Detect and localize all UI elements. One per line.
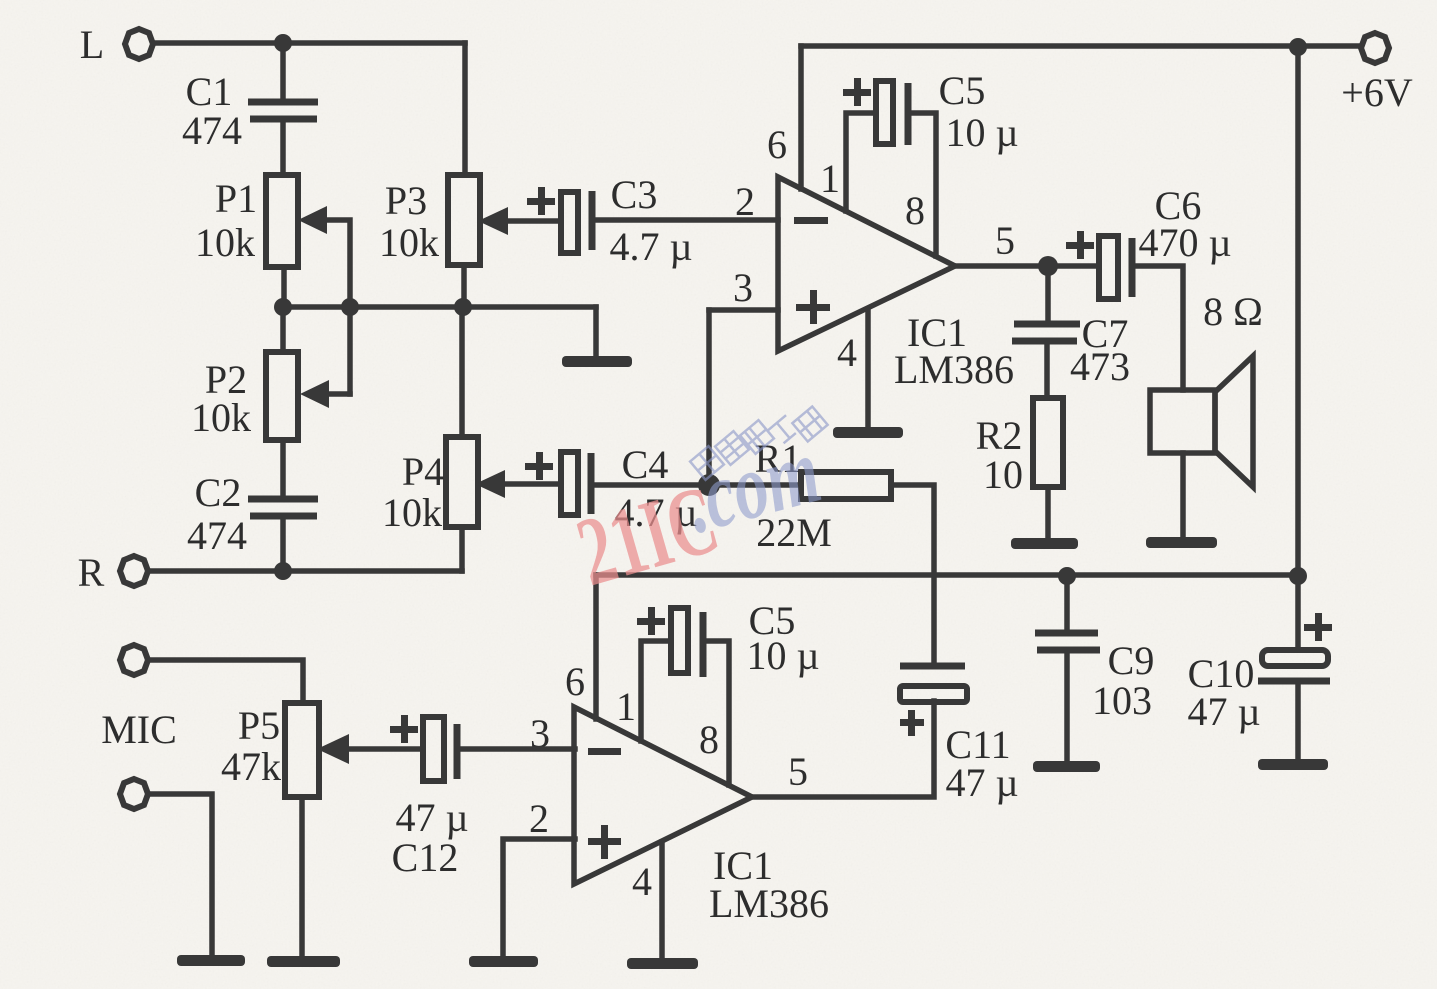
svg-text:10: 10 xyxy=(983,452,1023,497)
wire C1 to P1 xyxy=(280,122,286,175)
wire P3 bottom to bus xyxy=(461,265,467,307)
plus sign U2 xyxy=(588,825,621,859)
wire R1 to C11 column xyxy=(891,485,934,666)
wiper arrow P3 xyxy=(478,207,508,235)
wire C12 to pin3 lower xyxy=(457,746,575,752)
svg-text:47 µ: 47 µ xyxy=(395,795,468,840)
svg-text:470 µ: 470 µ xyxy=(1138,220,1231,265)
ground C9 xyxy=(1033,761,1100,772)
wire P2 bottom xyxy=(280,440,286,496)
svg-text:C12: C12 xyxy=(392,835,459,880)
wire C7 to R2 xyxy=(1044,344,1050,398)
svg-text:47 µ: 47 µ xyxy=(945,760,1018,805)
wire C2 to R line xyxy=(280,519,286,571)
watermark .com blue xyxy=(674,418,830,553)
svg-text:C2: C2 xyxy=(195,470,242,515)
plus sign U1 xyxy=(796,290,830,324)
wiper arrow P4 xyxy=(475,470,505,498)
junction wiper bus xyxy=(341,298,359,316)
potentiometer P4 xyxy=(446,437,478,527)
capacitor C11 electrolytic xyxy=(900,663,965,670)
wire pin6 up to rail xyxy=(798,46,804,189)
svg-text:P4: P4 xyxy=(402,449,444,494)
terminal +6V xyxy=(1361,33,1389,63)
junction C2 R-line xyxy=(274,562,292,580)
speaker SP xyxy=(1150,390,1215,453)
terminal R xyxy=(120,556,148,586)
ground pin4 U2 xyxy=(627,958,698,969)
plus sign C5 lower xyxy=(637,607,665,635)
svg-text:P3: P3 xyxy=(385,178,427,223)
svg-text:L: L xyxy=(80,22,104,67)
wire MIC bottom to ground xyxy=(148,794,212,955)
wire P1 wiper xyxy=(325,220,350,394)
potentiometer P2 xyxy=(266,352,298,440)
svg-text:10k: 10k xyxy=(191,395,251,440)
ground speaker xyxy=(1146,537,1217,548)
op-amp U1 LM386 xyxy=(778,177,955,351)
plus sign C6 xyxy=(1066,231,1094,259)
capacitor C5 lower electrolytic xyxy=(671,608,688,673)
wire node up to pin3 xyxy=(706,310,712,485)
wire pin4 to ground xyxy=(865,310,871,427)
wire rail to pin6 lower xyxy=(593,575,599,719)
svg-text:474: 474 xyxy=(187,513,247,558)
wire P5 wiper to C12 xyxy=(347,746,423,752)
potentiometer P1 xyxy=(266,175,298,267)
svg-text:6: 6 xyxy=(767,122,787,167)
capacitor C7 xyxy=(1012,324,1080,341)
svg-text:6: 6 xyxy=(565,659,585,704)
wire P5 bottom to ground xyxy=(299,797,305,956)
svg-text:P5: P5 xyxy=(238,703,280,748)
svg-text:10 µ: 10 µ xyxy=(945,110,1018,155)
wire pin1 lower xyxy=(641,641,671,741)
wire C10 to ground xyxy=(1295,681,1301,759)
minus sign U2 xyxy=(588,748,621,755)
svg-text:5: 5 xyxy=(788,749,808,794)
wire R2 to ground xyxy=(1045,487,1051,538)
ground pin4 U1 xyxy=(833,427,903,438)
wire C4 to node xyxy=(591,482,709,488)
plus sign C10 xyxy=(1304,613,1332,641)
junction P1 bus xyxy=(274,298,292,316)
svg-text:473: 473 xyxy=(1070,344,1130,389)
capacitor C2 xyxy=(248,499,318,516)
node at C1 top xyxy=(274,34,292,52)
watermark 21IC pink xyxy=(566,465,729,607)
wire C7 top lead xyxy=(1045,266,1051,321)
svg-text:474: 474 xyxy=(182,108,242,153)
watermark chinese chars xyxy=(690,406,828,479)
ground MIC xyxy=(177,955,245,966)
wire output pin5 lower xyxy=(751,701,934,797)
wire P3 wiper to C3 xyxy=(506,218,561,224)
svg-text:2: 2 xyxy=(529,796,549,841)
wire node to R1 xyxy=(709,482,801,488)
wire bus to P2 top xyxy=(280,307,286,352)
svg-text:1: 1 xyxy=(820,156,840,201)
ground P5 xyxy=(267,956,340,967)
ground pin2 U2 xyxy=(469,956,538,967)
terminal MIC bottom xyxy=(120,779,148,809)
wire pin1 xyxy=(846,113,876,211)
potentiometer P3 xyxy=(448,175,480,265)
junction C10 rail xyxy=(1289,567,1307,585)
plus sign C3 xyxy=(527,187,555,215)
svg-text:R: R xyxy=(78,550,105,595)
ground R2 xyxy=(1011,538,1078,549)
svg-text:10k: 10k xyxy=(379,220,439,265)
capacitor C1 xyxy=(248,102,318,119)
node pin3 feedback xyxy=(698,474,720,496)
svg-text:10 µ: 10 µ xyxy=(746,633,819,678)
svg-text:10k: 10k xyxy=(195,220,255,265)
svg-text:4: 4 xyxy=(632,859,652,904)
ground bus xyxy=(562,356,632,367)
capacitor C9 lead xyxy=(1064,576,1070,630)
svg-text:+6V: +6V xyxy=(1341,70,1413,115)
wiper arrow P2 xyxy=(300,380,329,408)
wiper arrow P5 xyxy=(317,734,349,764)
right rail +6V xyxy=(1295,47,1301,576)
wire C5 to pin8 xyxy=(908,113,936,256)
svg-text:8 Ω: 8 Ω xyxy=(1203,289,1263,334)
svg-text:2: 2 xyxy=(735,179,755,224)
svg-text:4: 4 xyxy=(837,330,857,375)
plus sign C12 xyxy=(390,715,418,743)
minus sign U1 xyxy=(794,217,828,224)
wire P2 wiper xyxy=(327,391,350,397)
svg-text:LM386: LM386 xyxy=(709,881,829,926)
svg-text:C5: C5 xyxy=(939,68,986,113)
svg-text:LM386: LM386 xyxy=(894,347,1014,392)
junction output C7 xyxy=(1038,256,1058,276)
wire speaker to ground xyxy=(1180,453,1186,537)
capacitor C9 xyxy=(1035,633,1100,650)
wire bus to P4 top xyxy=(459,307,465,437)
plus sign C4 xyxy=(525,452,553,480)
svg-text:103: 103 xyxy=(1092,678,1152,723)
bus wire y307 xyxy=(283,304,596,310)
op-amp U2 LM386 xyxy=(574,707,752,884)
svg-text:C3: C3 xyxy=(611,172,658,217)
wire C9 to ground xyxy=(1064,653,1070,761)
wire P4 wiper to C4 xyxy=(503,481,561,487)
resistor R2 xyxy=(1033,398,1063,487)
svg-text:4.7 µ: 4.7 µ xyxy=(609,224,692,269)
wire output pin5 xyxy=(955,263,1099,269)
wire C1 top lead xyxy=(280,43,286,99)
wire L to corner xyxy=(153,40,465,46)
wire C3 to pin2 xyxy=(592,217,778,223)
capacitor C5 top electrolytic xyxy=(876,81,893,144)
capacitor C10 electrolytic xyxy=(1262,650,1328,666)
svg-text:5: 5 xyxy=(995,218,1015,263)
svg-text:10k: 10k xyxy=(382,490,442,535)
plus sign C11 xyxy=(900,710,924,736)
wire pin2 lower xyxy=(503,839,575,956)
svg-text:8: 8 xyxy=(699,717,719,762)
top rail xyxy=(801,43,1360,49)
capacitor C12 electrolytic xyxy=(423,717,444,781)
wire MIC top to P5 xyxy=(148,660,303,703)
wire P1 bottom xyxy=(281,267,287,307)
svg-text:MIC: MIC xyxy=(101,707,177,752)
capacitor C6 electrolytic xyxy=(1099,236,1118,299)
lower rail xyxy=(596,572,1298,578)
wire pin3 xyxy=(709,307,778,313)
wire corner down to P3 xyxy=(462,43,468,175)
wire bus to ground xyxy=(593,307,599,356)
terminal L xyxy=(125,29,153,59)
wire C6 to speaker xyxy=(1132,266,1183,390)
svg-text:3: 3 xyxy=(733,265,753,310)
plus sign C5 top xyxy=(843,78,871,106)
wire pin4 lower to ground xyxy=(659,842,665,958)
junction P3 bus xyxy=(454,298,472,316)
svg-text:P1: P1 xyxy=(215,176,257,221)
capacitor C3 electrolytic xyxy=(561,192,578,253)
junction C9 rail xyxy=(1058,567,1076,585)
terminal MIC top xyxy=(120,645,148,675)
svg-text:8: 8 xyxy=(905,188,925,233)
ground C10 xyxy=(1258,759,1328,770)
svg-text:1: 1 xyxy=(616,684,636,729)
junction top rail right xyxy=(1289,38,1307,56)
svg-text:47 µ: 47 µ xyxy=(1187,689,1260,734)
svg-text:C9: C9 xyxy=(1108,638,1155,683)
wiper arrow P1 xyxy=(298,206,327,234)
wire C10 lead xyxy=(1295,576,1301,650)
svg-text:47k: 47k xyxy=(221,744,281,789)
wire R line up to P4 xyxy=(459,527,465,571)
potentiometer P5 xyxy=(285,703,319,797)
wire R input xyxy=(148,568,462,574)
capacitor C4 electrolytic xyxy=(561,452,578,515)
wire C5 lower to pin8 xyxy=(703,641,729,785)
resistor R1 xyxy=(801,472,891,499)
